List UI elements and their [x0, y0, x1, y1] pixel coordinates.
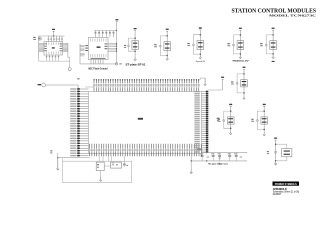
capacitor body	[241, 80, 248, 87]
U500 reference label	[138, 118, 143, 120]
caption below ladder	[208, 164, 229, 166]
ground via of U1	[69, 61, 71, 67]
junction circle on caption wire	[218, 163, 220, 165]
U500 left bus top label	[77, 78, 79, 79]
pin circle	[256, 120, 258, 122]
ground bottom left	[57, 158, 59, 169]
junction	[134, 37, 136, 39]
power symbol VCC	[229, 104, 232, 105]
U2 left pins group 2	[80, 52, 85, 54]
capacitor C12 VCC symbol	[274, 138, 277, 139]
title block text line 1	[273, 188, 287, 191]
wire drop to ground	[190, 156, 192, 170]
junction	[275, 160, 276, 161]
junction	[230, 128, 232, 130]
ground of C12	[275, 162, 277, 164]
junction	[272, 53, 274, 55]
svg-text:01/08/07: 01/08/07	[273, 193, 282, 196]
power symbol VCC	[272, 28, 275, 29]
junction circle on U2 rail	[115, 63, 117, 65]
wire loop	[237, 74, 244, 93]
title block text line 3	[273, 193, 282, 196]
U2 body	[89, 37, 109, 59]
ground inside enclosure	[100, 171, 102, 178]
power symbol VCC	[243, 67, 246, 68]
value label	[231, 82, 233, 83]
U2 bottom pins	[90, 60, 92, 64]
C12 value label	[267, 151, 269, 152]
wire loop	[266, 35, 273, 54]
U2 left pins	[80, 44, 85, 46]
wire	[263, 107, 265, 133]
BT1 value label	[124, 45, 126, 46]
junction	[166, 35, 168, 37]
power symbol VCC	[239, 28, 242, 29]
C12 loop wire	[276, 143, 287, 145]
title line 1	[232, 9, 317, 15]
label C4 value	[33, 37, 35, 38]
junction	[263, 110, 265, 112]
wire VCC rail of U1	[53, 32, 55, 36]
junction	[230, 110, 232, 112]
wire top-left stub	[85, 86, 94, 88]
bottom right lower rail wire	[191, 160, 247, 162]
label R short	[50, 150, 52, 151]
U1 top pins	[48, 36, 50, 38]
U2 inner top pin names	[90, 38, 92, 41]
wire	[239, 31, 241, 56]
U500 left pin rows	[78, 88, 88, 90]
power symbol VCC	[166, 29, 169, 30]
wire	[199, 31, 201, 56]
wire loop	[193, 35, 200, 54]
junction	[263, 129, 265, 131]
junction	[243, 92, 245, 94]
BT1 body	[132, 41, 138, 50]
junction	[272, 34, 274, 36]
wire loop	[257, 111, 264, 129]
wire loop	[234, 35, 241, 54]
wire	[166, 32, 168, 57]
pin circle	[223, 120, 225, 122]
crystal enclosure box	[62, 161, 131, 182]
junction	[191, 160, 192, 161]
U2 inner bottom pin names	[90, 54, 92, 57]
value label	[260, 43, 262, 44]
pin circle	[236, 82, 238, 84]
U2 inner bottom pin numbers	[91, 58, 106, 59]
U2 top rail wire	[94, 30, 117, 32]
junction	[275, 144, 276, 145]
pin circle	[233, 44, 235, 46]
IC U2 VCC symbol	[115, 19, 118, 20]
IC U1 VCC symbol	[52, 29, 55, 30]
U500 right bus	[206, 90, 208, 154]
power symbol VCC	[199, 27, 202, 28]
capacitor body	[261, 117, 268, 124]
svg-text:ADC Flash Ground: ADC Flash Ground	[88, 68, 108, 71]
U500 top pin band	[93, 80, 95, 84]
BT1 pin circle	[127, 45, 129, 47]
ground top right of U500	[199, 78, 201, 80]
ground	[239, 55, 241, 57]
U2 reference label	[97, 46, 101, 48]
svg-text:TN2003-3V: TN2003-3V	[232, 61, 249, 63]
title block POWER SYMBOLS	[273, 182, 300, 186]
junction	[240, 34, 242, 36]
U500 right pin rows	[202, 91, 207, 93]
ground	[199, 56, 201, 58]
wire U500 bottom left	[58, 157, 90, 159]
junction circles on ladder	[207, 156, 209, 158]
C12 body	[282, 149, 292, 157]
junction	[200, 53, 202, 55]
capacitor C4	[38, 37, 41, 40]
junction	[166, 55, 168, 57]
pin name box	[197, 148, 202, 150]
U1 bottom pins	[46, 55, 48, 58]
value label	[218, 119, 220, 120]
capacitors C14-C18	[201, 153, 203, 156]
ground	[272, 55, 274, 57]
U2 caption ADC Flash Ground	[88, 68, 108, 71]
U2 bottom rail wire	[80, 63, 117, 65]
U500 left bus	[77, 85, 79, 156]
oscillator capacitor block	[111, 162, 122, 168]
value label	[187, 43, 189, 44]
capacitor body	[237, 41, 244, 50]
wire loop	[160, 36, 167, 56]
wire VCC to U500 right bus	[222, 80, 224, 90]
U1 left bus	[38, 36, 40, 58]
U1 inner bottom pin names	[46, 52, 48, 55]
U2 right bus wire	[116, 22, 118, 64]
IC U1 body	[44, 42, 63, 56]
C12 wire	[275, 141, 277, 162]
bottom right upper rail wire	[203, 152, 248, 154]
wire	[230, 107, 232, 131]
U500 top pin net labels	[93, 84, 95, 87]
junction	[243, 73, 245, 75]
BT1 wire	[134, 31, 136, 57]
capacitor body	[164, 42, 171, 51]
capacitor body	[270, 41, 277, 50]
ground	[230, 132, 232, 134]
ground	[166, 57, 168, 59]
title line 2 model number	[269, 14, 316, 18]
BT1 caption	[125, 64, 146, 67]
title block text line 2	[273, 190, 300, 193]
U1 inner top pin names	[46, 42, 48, 45]
power symbol VCC	[263, 104, 266, 105]
wire	[243, 70, 245, 96]
capacitor C13	[123, 161, 125, 164]
junction	[200, 34, 202, 36]
U500 bottom pin numbers	[89, 149, 91, 151]
pin circle	[159, 45, 161, 47]
label	[232, 61, 249, 63]
junction	[134, 50, 136, 52]
node J1 label	[38, 84, 41, 85]
value label	[227, 43, 229, 44]
label	[196, 61, 206, 63]
junction	[240, 53, 242, 55]
svg-text:MODEL TCN6273C: MODEL TCN6273C	[269, 14, 316, 18]
junction	[57, 157, 58, 158]
ground of BT1	[134, 57, 136, 59]
U1 bottom rail wire	[38, 58, 40, 62]
U500 bottom pin band	[89, 144, 91, 149]
wire J1 to U500 left bus	[46, 84, 79, 86]
svg-text:Speed 60: Speed 60	[196, 61, 206, 63]
power symbol VCC right	[221, 77, 224, 78]
C12 pin circle	[275, 151, 277, 153]
wire stubs into enclosure	[98, 156, 100, 161]
svg-text:This plane is high noise: This plane is high noise	[208, 164, 229, 166]
pin circle	[192, 44, 194, 46]
wire crystal to cap	[104, 165, 110, 167]
value label	[251, 119, 253, 120]
wire	[272, 31, 274, 56]
ground	[243, 96, 245, 98]
ground	[263, 133, 265, 135]
U1 left pins	[39, 43, 44, 45]
wire loop	[224, 111, 231, 128]
U2 left bus	[79, 44, 81, 64]
value label	[154, 44, 156, 45]
battery BT1 VCC symbol	[134, 28, 137, 29]
capacitor body	[197, 41, 204, 50]
net label DD	[217, 118, 220, 119]
ground bottom mid	[190, 170, 192, 172]
connector J1 circle	[42, 83, 46, 87]
U2 top pins	[95, 31, 97, 32]
pin circle	[265, 44, 267, 46]
U2 right pins	[108, 43, 117, 45]
IC U500 body	[89, 92, 202, 154]
capacitor body	[227, 117, 234, 124]
U1 right pins	[67, 43, 69, 57]
U1 reference label	[52, 47, 55, 48]
BT1 loop wire	[128, 38, 135, 51]
crystal Y1 body	[96, 162, 104, 171]
